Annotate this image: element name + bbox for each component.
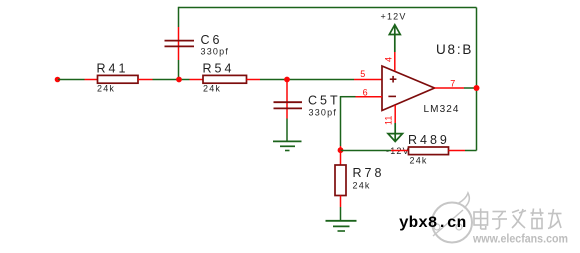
svg-text:C6: C6: [201, 33, 223, 47]
watermark chinese text 电子发烧友: [474, 209, 562, 230]
wire: R41 right pin red: [138, 79, 153, 81]
wire: feedback vertical green: [340, 96, 342, 146]
wire: feedback vertical red bottom: [340, 146, 342, 151]
svg-text:R41: R41: [97, 62, 129, 76]
svg-text:24k: 24k: [203, 84, 221, 94]
wire: pin 7 green to right wire: [464, 87, 477, 89]
svg-text:7: 7: [450, 78, 455, 88]
node B junction dot: [284, 77, 290, 83]
svg-text:4: 4: [384, 57, 394, 62]
wire: R78 to ground green: [340, 207, 342, 221]
wire: pin 6 red stub: [356, 96, 383, 98]
resistor R489: [409, 147, 449, 155]
node: output junction dot: [474, 85, 480, 91]
svg-text:R489: R489: [408, 133, 450, 147]
svg-text:R54: R54: [203, 62, 235, 76]
watermark logo circle: [432, 193, 472, 243]
wire: pin 6 green horizontal: [341, 96, 356, 98]
svg-text:11: 11: [384, 116, 394, 125]
op-amp minus symbol: [388, 95, 396, 97]
wire: left green segment: [58, 79, 85, 81]
wire: pin 11 red: [394, 105, 396, 123]
wire: C6 pin top red: [178, 27, 180, 44]
node A junction dot: [176, 77, 182, 83]
svg-text:24k: 24k: [97, 84, 115, 94]
svg-text:6: 6: [363, 87, 368, 97]
resistor R41: [98, 75, 139, 83]
capacitor C5T: [274, 102, 303, 108]
wire: green between R41 and R54: [153, 79, 190, 81]
resistor R78: [335, 165, 346, 196]
wire: C5T to ground green: [286, 119, 288, 142]
wire: R54 left pin red: [190, 79, 204, 81]
wire: C6 pin bottom red: [178, 44, 180, 61]
svg-text:R78: R78: [353, 166, 385, 180]
svg-text:U8:B: U8:B: [436, 42, 473, 57]
wire: pin 7 red: [435, 87, 465, 89]
svg-text:ybx8.cn: ybx8.cn: [399, 214, 466, 232]
wire: C6 branch upper green: [178, 7, 180, 27]
wire: C6 branch lower green: [178, 60, 180, 80]
op-amp U8:B: [382, 66, 435, 111]
svg-text:330pf: 330pf: [309, 108, 338, 118]
op-amp plus symbol: [390, 76, 397, 83]
wire: top horizontal: [179, 7, 477, 9]
wire: C5T pin bottom red: [286, 106, 288, 119]
svg-text:24k: 24k: [410, 156, 428, 166]
power -12V arrow: [388, 123, 403, 142]
capacitor C6: [165, 41, 195, 47]
wire: green to op-amp: [260, 79, 354, 81]
svg-text:24k: 24k: [353, 181, 371, 191]
wire: right vertical: [476, 8, 478, 151]
wire: pin 4 red: [394, 52, 396, 71]
node C junction dot: [338, 147, 344, 153]
wire: bottom green left: [341, 150, 392, 152]
svg-text:C5T: C5T: [308, 94, 341, 108]
svg-text:+12V: +12V: [381, 12, 407, 22]
wire: R489 left pin red: [391, 150, 409, 152]
wire: R78 top pin red: [340, 151, 342, 166]
power +12V arrow: [389, 25, 400, 52]
wire: R489 right pin red: [449, 150, 466, 152]
ground under C5T: [273, 141, 302, 150]
svg-text:www.elecfans.com: www.elecfans.com: [472, 232, 568, 246]
wire: bottom green right: [465, 150, 477, 152]
svg-text:LM324: LM324: [424, 104, 460, 115]
wire: R54 right pin red: [247, 79, 261, 81]
resistor R54: [203, 75, 247, 83]
svg-text:330pf: 330pf: [201, 47, 230, 57]
wire: C5T pin top red: [286, 80, 288, 106]
svg-text:5: 5: [360, 69, 365, 79]
node: left terminal dot: [55, 77, 61, 83]
ground under R78: [326, 221, 357, 231]
wire: R41 left pin red: [85, 79, 98, 81]
wire: R78 bottom pin red: [340, 196, 342, 208]
wire: pin 5 red stub: [354, 79, 382, 81]
